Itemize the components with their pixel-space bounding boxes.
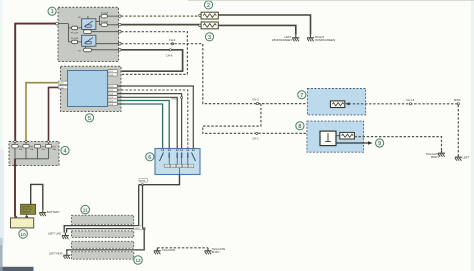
svg-text:7: 7 xyxy=(300,93,303,99)
ground left windscreen xyxy=(292,35,299,42)
svg-text:TAILGATE: TAILGATE xyxy=(162,248,176,252)
washer pump heater unit 8 xyxy=(307,121,364,152)
svg-text:C2-6: C2-6 xyxy=(109,94,113,96)
node connector CH-14 xyxy=(409,103,411,105)
svg-text:WINDSCREEN: WINDSCREEN xyxy=(272,38,292,42)
pin C2-2 xyxy=(108,84,117,88)
label circled 8 xyxy=(296,122,304,130)
svg-text:C20: C20 xyxy=(177,166,180,168)
node splice SP33 xyxy=(181,97,183,99)
label circled 9 xyxy=(376,139,384,147)
svg-text:1: 1 xyxy=(51,9,54,15)
node connector CH-3 xyxy=(256,103,258,105)
fuse F2 under relay R6 xyxy=(84,30,92,34)
pin C1-2 left xyxy=(58,81,67,85)
pin C2-1 xyxy=(108,70,117,74)
fuse F6 xyxy=(72,26,78,30)
node input pin module 1 xyxy=(56,22,59,25)
wire module 1 pin2 to heater 3 xyxy=(121,24,200,26)
wire control unit pin C2-9 to connector 6 xyxy=(117,97,177,148)
wire connector 6 to splice SP59 xyxy=(139,175,180,185)
svg-text:5: 5 xyxy=(88,116,91,122)
wire pump output arrow to 9 xyxy=(336,142,369,144)
ground battery xyxy=(39,210,46,217)
svg-text:F7 10A: F7 10A xyxy=(101,20,109,23)
svg-text:C20: C20 xyxy=(189,166,192,168)
wire module 1 pin1 to heater 2 (dashed) xyxy=(121,15,200,17)
svg-text:LEFT RHD: LEFT RHD xyxy=(49,252,63,256)
ground left body xyxy=(455,154,462,161)
svg-text:F8 15A: F8 15A xyxy=(71,37,79,40)
label circled 2 xyxy=(204,1,212,9)
wire battery feed to module 1 xyxy=(15,24,56,142)
label circled 10 xyxy=(19,230,28,239)
svg-text:C20: C20 xyxy=(171,166,174,168)
svg-text:C1-6: C1-6 xyxy=(59,87,63,89)
node module 1 output pins xyxy=(119,15,122,51)
wire splice to screen heater 12 xyxy=(67,229,144,253)
svg-text:10: 10 xyxy=(21,232,27,237)
ground left LHD screen xyxy=(62,233,69,240)
svg-text:CH-1: CH-1 xyxy=(252,137,259,141)
label circled 3 xyxy=(205,33,213,41)
svg-text:2: 2 xyxy=(207,3,210,9)
wire return from heater 7 to splice SP60 (dashed with arrow) xyxy=(349,103,459,105)
wire sensor to battery ground xyxy=(31,184,43,209)
fuse F5 upper xyxy=(101,14,107,18)
wire relay R7 outputs xyxy=(86,44,119,50)
label circled 6 xyxy=(146,153,154,161)
wire control unit pin C2-2 to connector 6 xyxy=(117,86,193,149)
svg-text:12: 12 xyxy=(135,258,141,263)
wire fusebox to battery positive xyxy=(14,159,16,216)
pin C2-9 xyxy=(108,96,117,100)
wire module 1 pin3 to control unit 5 pin C2-4 (dashed) xyxy=(117,32,187,75)
fuse F7 lower xyxy=(101,23,107,27)
svg-text:C2-8: C2-8 xyxy=(109,104,113,106)
svg-text:SP60: SP60 xyxy=(454,98,461,102)
ground tailgate xyxy=(154,248,161,255)
wire splice to screen heater 11 upper xyxy=(64,185,139,233)
heater element 3 right washer jet xyxy=(199,22,219,29)
wire branch loop to heater 8 (dashed) xyxy=(203,104,320,134)
heated jet unit 7 xyxy=(307,89,365,115)
wire splice to screen heater 11 lower xyxy=(67,185,143,233)
wire internal bus module 1 xyxy=(58,24,81,42)
wire control unit pin C2-6 to connector 6 xyxy=(117,94,181,149)
pin C2-8 xyxy=(108,102,117,106)
svg-text:BODY: BODY xyxy=(431,155,439,159)
wire control unit pin C2-5 to connector 6 (dashed) xyxy=(117,90,188,149)
svg-text:F5 10A: F5 10A xyxy=(101,12,109,15)
heated screen element 11 lower bar xyxy=(72,231,134,238)
fusebox 4 xyxy=(9,142,59,166)
svg-text:3: 3 xyxy=(208,35,211,41)
battery monitoring sensor xyxy=(21,204,36,216)
svg-text:LEFT: LEFT xyxy=(462,155,469,159)
fuse F30 xyxy=(12,142,23,159)
svg-text:LEFT LHD: LEFT LHD xyxy=(48,232,61,236)
node splice SP59 xyxy=(139,179,147,183)
svg-text:C2-3: C2-3 xyxy=(109,100,113,102)
fuse F32 xyxy=(34,144,45,158)
svg-text:F6 10A: F6 10A xyxy=(71,31,79,34)
svg-text:CH-3: CH-3 xyxy=(252,98,259,102)
fuse F8 xyxy=(72,40,78,44)
wire module 1 pin4 feed to heaters 7 and 8 (dashed) xyxy=(121,44,330,104)
label circled 7 xyxy=(298,91,306,99)
wire control unit pin C2-3 to connector 6 (teal) xyxy=(117,101,169,149)
wire control unit pin C2-8 to connector 6 (teal) xyxy=(117,104,162,149)
battery 10 xyxy=(11,216,34,228)
svg-text:C2-5: C2-5 xyxy=(109,90,113,92)
wire control unit left pin C1-2 to fusebox (olive) xyxy=(26,83,58,142)
heated screen element 12 lower bar xyxy=(72,252,134,260)
fuse F4 under relay R7 xyxy=(84,48,92,52)
wire fusebox internal bus xyxy=(15,158,49,160)
wire relay R6 outputs xyxy=(86,16,119,32)
svg-text:SP61: SP61 xyxy=(134,228,140,230)
svg-text:9: 9 xyxy=(378,141,381,147)
node connector CH-2 xyxy=(171,43,173,45)
relay R7 xyxy=(78,35,96,52)
wire heater 3 to left windscreen ground xyxy=(219,25,296,34)
svg-text:WINDSCREEN: WINDSCREEN xyxy=(315,38,335,42)
ground tailgate body xyxy=(205,248,212,255)
pin C2-6 xyxy=(108,92,117,96)
svg-text:BATTERY: BATTERY xyxy=(22,205,32,208)
wire module 1 pin5 to control unit 5 pin C2-1 xyxy=(117,50,182,71)
connector 6 xyxy=(155,149,200,175)
label circled 5 xyxy=(85,114,93,122)
wire splice SP60 to left ground (dashed) xyxy=(457,105,459,154)
relay module box 1 xyxy=(58,7,119,61)
ground tailgate body right xyxy=(438,150,445,157)
svg-text:BATTERY: BATTERY xyxy=(47,210,60,214)
ground left RHD screen xyxy=(63,252,70,258)
svg-text:CH-14: CH-14 xyxy=(406,98,415,102)
pin C2-5 xyxy=(108,88,117,92)
node connector CH-8 xyxy=(169,49,171,51)
wire tailgate bonding strap (dashed) xyxy=(157,247,208,249)
wire heater 8 return to tailgate body ground (dashed) xyxy=(354,137,441,151)
svg-text:BODY: BODY xyxy=(212,250,220,254)
pin C2-4 xyxy=(108,73,117,77)
svg-text:C1-2: C1-2 xyxy=(59,83,63,85)
relay R6 xyxy=(78,17,96,29)
svg-text:SP59: SP59 xyxy=(140,180,146,182)
ground right windscreen xyxy=(307,35,314,42)
svg-text:SENSOR: SENSOR xyxy=(22,212,31,214)
pin C2-3 xyxy=(108,99,117,103)
heated screen element 12 upper bar xyxy=(72,241,134,248)
svg-text:C2-2: C2-2 xyxy=(109,86,113,88)
label circled 1 xyxy=(48,7,56,15)
svg-text:4: 4 xyxy=(64,149,67,155)
node splice SP61 xyxy=(134,226,142,230)
node connector CH-1 xyxy=(256,132,258,134)
svg-text:6: 6 xyxy=(148,155,151,161)
label circled 4 xyxy=(61,146,69,154)
label circled 12 xyxy=(134,256,143,265)
svg-text:CH-8: CH-8 xyxy=(166,54,173,58)
svg-text:C20: C20 xyxy=(165,166,168,168)
svg-text:C20: C20 xyxy=(183,166,186,168)
wire heater 2 to right windscreen ground xyxy=(219,15,311,35)
fuse F31 xyxy=(23,142,34,159)
svg-text:11: 11 xyxy=(83,208,88,213)
node fusebox top pins xyxy=(14,140,50,166)
svg-text:8: 8 xyxy=(298,124,301,130)
svg-text:C2-4: C2-4 xyxy=(109,74,113,76)
wire control unit left pin C1-6 to fusebox (dark red) xyxy=(49,87,59,141)
fuse F33 xyxy=(45,142,56,159)
heated screen element 11 upper bar xyxy=(72,215,134,224)
pin C1-6 left xyxy=(58,86,67,90)
svg-text:CH-2: CH-2 xyxy=(169,38,176,42)
control unit 5 xyxy=(61,66,122,111)
node splice SP60 xyxy=(457,103,459,105)
pin label C2-0 row of connector 6 xyxy=(165,164,194,167)
heater element 2 left washer jet xyxy=(199,12,219,19)
label circled 11 xyxy=(81,205,90,214)
